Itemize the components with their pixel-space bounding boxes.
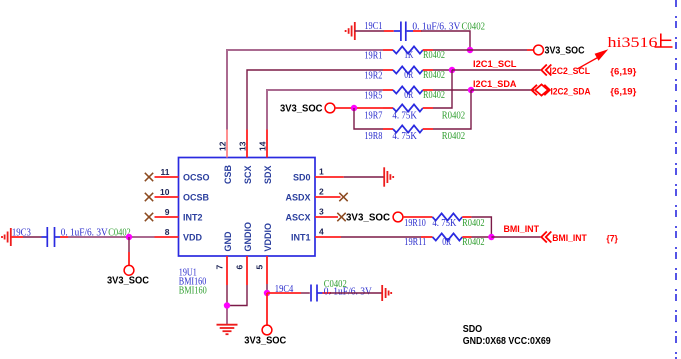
svg-text:8: 8 <box>165 227 170 237</box>
svg-text:BMI160: BMI160 <box>179 285 207 296</box>
svg-text:INT2: INT2 <box>183 213 203 223</box>
svg-text:14: 14 <box>257 141 267 151</box>
pin 1 (SD0) <box>315 167 344 178</box>
svg-text:4. 75K: 4. 75K <box>392 131 417 142</box>
ground (SD0) <box>384 167 393 186</box>
svg-text:19R10: 19R10 <box>404 218 426 229</box>
net label I2C1_SCL <box>473 59 517 70</box>
wire R8 up to SDA <box>433 90 471 129</box>
pin 9 (INT2) <box>155 207 179 217</box>
svg-text:5: 5 <box>255 265 265 270</box>
wire VDDIO to power <box>266 293 268 325</box>
svg-text:19C1: 19C1 <box>364 21 382 32</box>
resistor R8 (19R8 4.75K) <box>364 125 465 141</box>
sheet ref {6,19} SDA <box>610 87 636 98</box>
wire INT1 to R11 <box>341 236 421 238</box>
wire junction to power <box>470 49 534 51</box>
ground (GND/GNDIO pins) <box>217 325 238 335</box>
svg-text:R0402: R0402 <box>462 218 485 229</box>
no-connect pin 2 <box>339 193 347 201</box>
resistor R11 (19R11 0R) <box>404 233 484 248</box>
svg-text:11: 11 <box>161 167 170 177</box>
wire ground to C1 <box>355 30 384 32</box>
pin 3 (ASCX) <box>315 207 338 218</box>
svg-text:R0402: R0402 <box>423 90 445 101</box>
wire power to R7 <box>335 107 383 109</box>
svg-text:19R8: 19R8 <box>364 131 382 142</box>
wire SCX net (pin13 riser) <box>247 70 383 130</box>
wire VDDIO to junction <box>266 284 268 293</box>
svg-text:GND: GND <box>223 231 233 252</box>
power 3V3_SOC (VDDIO) <box>244 325 286 347</box>
svg-text:4. 75K: 4. 75K <box>432 218 457 229</box>
capacitor C1 (19C1 0.1uF/6.3V) <box>364 21 485 41</box>
pin 13 (SCX) <box>237 130 247 158</box>
svg-text:{6,19}: {6,19} <box>610 87 636 98</box>
no-connect pin 10 <box>145 193 153 201</box>
pin 5 (VDDIO) <box>255 256 267 284</box>
sheet ref {6,19} <box>610 67 636 78</box>
no-connect pin 11 <box>145 173 153 181</box>
svg-text:3V3_SOC: 3V3_SOC <box>244 335 286 347</box>
junction SDA (471,90) <box>468 87 474 93</box>
junction SCL (452,70) <box>449 67 455 73</box>
junction (129,237) <box>126 234 132 240</box>
pin 4 (INT1) <box>315 227 341 238</box>
resistor R5 (19R5 0R) <box>364 86 445 101</box>
svg-text:19R11: 19R11 <box>404 237 426 248</box>
junction (267,293) <box>264 290 270 296</box>
wire R2 to SCL junction <box>433 69 452 71</box>
capacitor C4 (19C4 0.1uF/6.3V) <box>267 279 373 302</box>
svg-text:I2C1_SDA: I2C1_SDA <box>473 79 517 90</box>
svg-text:19R2: 19R2 <box>364 71 382 82</box>
svg-text:1: 1 <box>319 167 324 177</box>
svg-text:19R7: 19R7 <box>364 110 382 121</box>
svg-text:R0402: R0402 <box>462 237 485 248</box>
off-page connector I2C2_SDA <box>532 84 591 97</box>
IC U1 BMI160 body <box>179 158 316 257</box>
svg-text:BMI_INT: BMI_INT <box>504 224 540 235</box>
off-page connector BMI_INT <box>541 232 587 244</box>
junction (470,50) <box>467 47 473 53</box>
svg-text:2: 2 <box>319 187 324 197</box>
svg-text:19R1: 19R1 <box>364 51 382 62</box>
junction BMI_INT (491.4,237) <box>488 234 494 240</box>
net label BMI_INT <box>504 224 540 235</box>
svg-text:19C3: 19C3 <box>12 227 31 238</box>
svg-text:0R: 0R <box>404 90 413 101</box>
svg-text:9: 9 <box>165 207 170 217</box>
power 3V3_SOC (VDD) <box>107 265 149 286</box>
svg-text:VDDIO: VDDIO <box>263 223 273 252</box>
svg-text:I2C2_SCL: I2C2_SCL <box>550 66 591 77</box>
wire GND pin to ground <box>226 285 228 325</box>
junction (354,108) <box>351 105 357 111</box>
pin 8 (VDD) <box>155 227 179 237</box>
no-connect pin 9 <box>145 213 153 221</box>
wire C4 to ground <box>330 292 382 294</box>
pin 7 (GND) <box>215 256 227 285</box>
svg-text:R0402: R0402 <box>423 70 445 81</box>
wire GNDIO to GND net <box>227 285 247 306</box>
svg-text:I2C1_SCL: I2C1_SCL <box>473 59 517 70</box>
junction (227,305.5) <box>224 302 230 308</box>
sheet ref {7} <box>606 234 618 245</box>
svg-text:4: 4 <box>319 227 324 237</box>
wire SDA to off-page <box>471 89 534 91</box>
capacitor C3 (19C3 0.1uF/6.3V) <box>11 227 131 247</box>
svg-text:R0402: R0402 <box>423 50 445 61</box>
pin 12 (CSB) <box>217 130 227 158</box>
svg-text:I2C2_SDA: I2C2_SDA <box>551 86 591 97</box>
net label I2C1_SDA <box>473 79 517 90</box>
ground (19C1) <box>346 22 355 40</box>
off-page connector I2C2_SCL <box>541 65 590 78</box>
pin 10 (OCSB) <box>155 187 179 197</box>
wire junction down to R8 row <box>354 108 383 129</box>
svg-text:GNDIO: GNDIO <box>243 222 253 252</box>
svg-text:ASDX: ASDX <box>285 193 310 203</box>
annotation hi3516上 <box>608 34 673 51</box>
pin 14 (SDX) <box>257 130 267 158</box>
ground (19C4) <box>382 285 391 301</box>
svg-text:BMI_INT: BMI_INT <box>552 233 587 244</box>
svg-text:VDD: VDD <box>183 233 203 243</box>
svg-text:R0402: R0402 <box>442 131 466 142</box>
wire C1 to junction <box>421 31 470 50</box>
ground (19C3) <box>2 228 11 246</box>
wire CSB net (pin12 riser) <box>227 50 383 130</box>
svg-text:GND:0X68 VCC:0X69: GND:0X68 VCC:0X69 <box>463 335 551 347</box>
svg-text:6: 6 <box>235 265 245 270</box>
wire R11 to junction <box>472 236 492 238</box>
power 3V3_SOC (pin 3) <box>346 212 403 224</box>
svg-text:hi3516: hi3516 <box>608 35 659 51</box>
svg-text:ASCX: ASCX <box>285 213 310 223</box>
no-connect pin 3 <box>337 213 345 221</box>
resistor R2 (19R2 0R) <box>364 66 445 81</box>
note SDO address <box>463 323 551 347</box>
svg-text:0. 1uF/6. 3V: 0. 1uF/6. 3V <box>324 287 373 298</box>
svg-text:4. 75K: 4. 75K <box>392 110 417 121</box>
svg-text:19R5: 19R5 <box>364 91 382 102</box>
wire junction to power <box>128 237 130 266</box>
pin 2 (ASDX) <box>315 187 341 198</box>
svg-text:3V3_SOC: 3V3_SOC <box>107 275 149 287</box>
svg-text:OCSB: OCSB <box>183 193 210 203</box>
resistor R1 (19R1 1K) <box>364 46 445 61</box>
svg-text:19C4: 19C4 <box>275 284 294 295</box>
svg-text:CSB: CSB <box>223 164 233 184</box>
svg-text:10: 10 <box>160 187 170 197</box>
pin 6 (GNDIO) <box>235 256 247 285</box>
svg-text:{7}: {7} <box>606 234 618 245</box>
power 3V3_SOC (pull-ups) <box>280 103 335 115</box>
svg-text:R0402: R0402 <box>442 110 466 121</box>
wire junction to off-page <box>491 236 540 238</box>
resistor R10 (19R10 4.75K) <box>404 213 484 229</box>
wire SDX net (pin14 riser) <box>267 90 383 130</box>
svg-text:12: 12 <box>217 141 227 151</box>
wire SCL to off-page <box>452 69 541 71</box>
svg-text:0R: 0R <box>442 237 451 248</box>
annotation arrow <box>578 49 609 69</box>
wire R10 to BMI junction <box>471 217 491 237</box>
svg-text:SCX: SCX <box>243 165 253 184</box>
wire SD0 to ground <box>344 176 384 178</box>
svg-text:OCSO: OCSO <box>183 173 210 183</box>
svg-text:INT1: INT1 <box>291 233 311 243</box>
svg-text:SD0: SD0 <box>293 173 311 183</box>
svg-text:3V3_SOC: 3V3_SOC <box>346 212 390 224</box>
svg-text:0R: 0R <box>404 70 413 81</box>
svg-text:3V3_SOC: 3V3_SOC <box>545 45 585 57</box>
svg-text:SDX: SDX <box>263 165 273 184</box>
svg-text:{6,19}: {6,19} <box>610 67 636 78</box>
svg-text:13: 13 <box>237 141 247 151</box>
U1 refdes 19U1 BMI160 <box>179 267 207 296</box>
svg-text:3: 3 <box>319 207 324 217</box>
svg-text:7: 7 <box>215 265 225 270</box>
svg-text:1K: 1K <box>404 50 414 61</box>
svg-text:3V3_SOC: 3V3_SOC <box>280 103 323 115</box>
svg-text:SDO: SDO <box>463 323 483 335</box>
wire R1 to junction <box>433 49 470 51</box>
pin 11 (OCSO) <box>155 167 179 177</box>
resistor R7 (19R7 4.75K) <box>364 104 465 121</box>
wire power to R10 <box>403 216 433 218</box>
wire C3 to VDD pin <box>68 236 155 238</box>
power 3V3_SOC (top) <box>534 45 585 57</box>
wire R5 to SDA junction <box>433 89 471 91</box>
wire R7 up to SCL <box>433 70 452 108</box>
